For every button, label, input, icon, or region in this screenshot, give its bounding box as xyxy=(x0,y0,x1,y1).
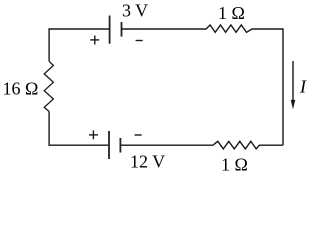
svg-text:1 Ω: 1 Ω xyxy=(218,3,245,23)
svg-text:16 Ω: 16 Ω xyxy=(3,79,39,99)
svg-text:12 V: 12 V xyxy=(130,152,165,172)
svg-text:1 Ω: 1 Ω xyxy=(221,155,248,175)
svg-text:3 V: 3 V xyxy=(122,1,148,21)
svg-text:I: I xyxy=(299,77,307,97)
